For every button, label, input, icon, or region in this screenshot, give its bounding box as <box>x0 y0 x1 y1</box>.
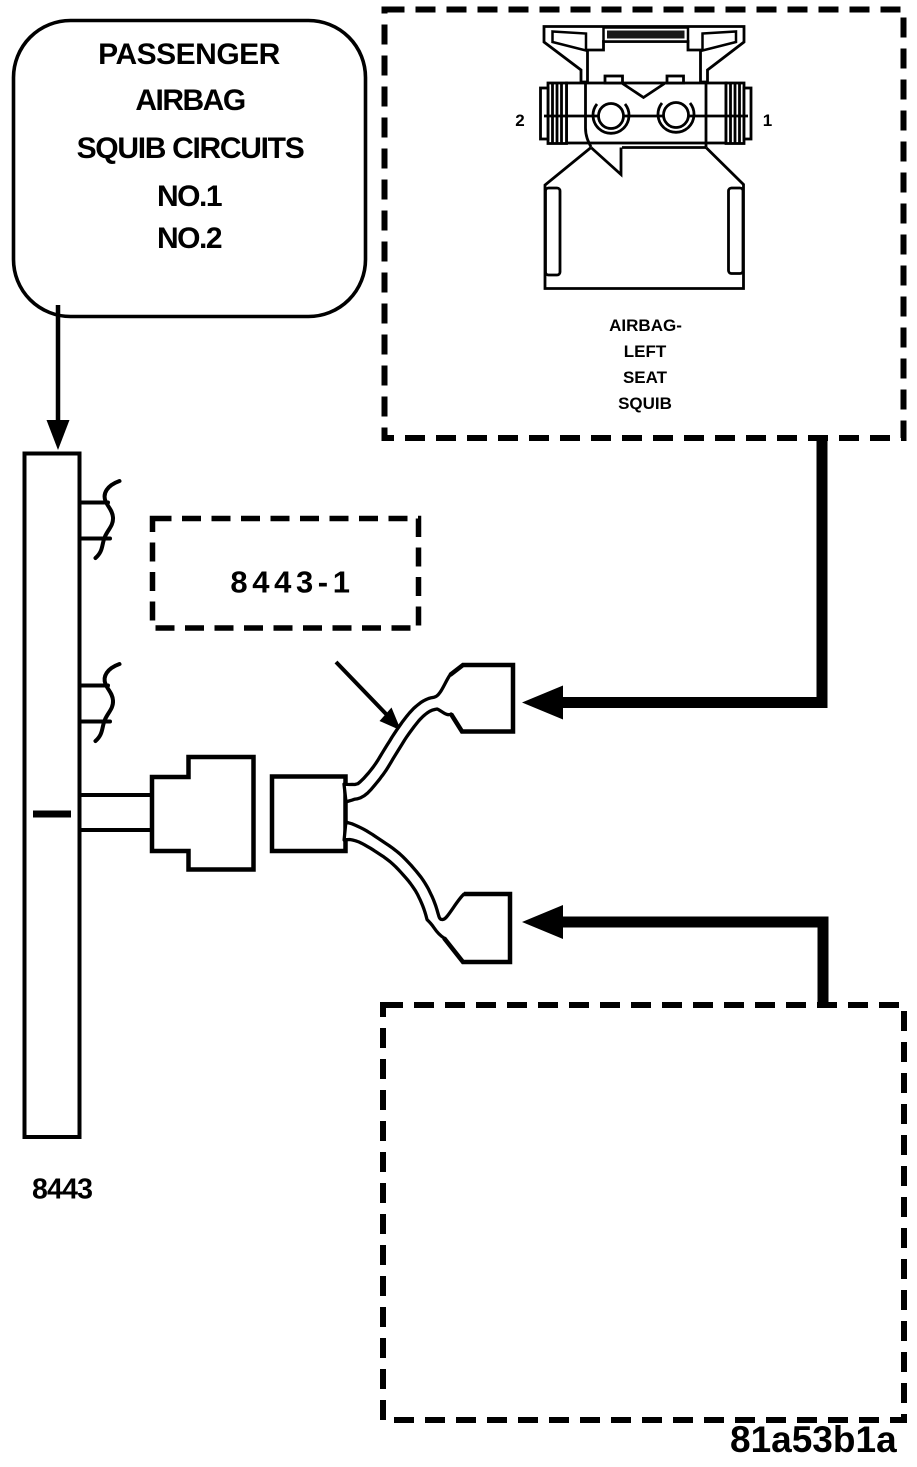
lower housing <box>545 148 744 289</box>
thick arrow upper head <box>522 686 563 720</box>
pointer arrow from 8443-1 <box>336 662 388 716</box>
thick arrow upper wire run from squib <box>563 438 822 703</box>
arrowhead into connector 8443 <box>47 420 70 450</box>
harness junction square <box>272 777 346 852</box>
wire lower squib lead with terminal boot <box>344 822 510 962</box>
clip lock symbol lower on 8443 <box>80 664 120 741</box>
barrel right end <box>744 88 751 139</box>
right slanted slot <box>703 32 737 51</box>
center slot bar <box>607 31 685 39</box>
left slanted slot <box>553 32 587 51</box>
housing beak <box>591 148 621 175</box>
pin tab left <box>605 76 623 83</box>
harness plug stepped body <box>152 757 254 870</box>
svg-text:SEAT: SEAT <box>623 368 668 387</box>
pin 1 cup <box>658 103 694 132</box>
barrel body <box>567 83 727 143</box>
svg-text:SQUIB: SQUIB <box>618 394 672 413</box>
wire from callout to connector 8443 <box>56 305 61 424</box>
svg-text:8443: 8443 <box>32 1174 92 1206</box>
top plate <box>544 27 744 83</box>
center section left wall <box>586 83 592 147</box>
pin 2 circle <box>599 104 624 129</box>
dashed box airbag left seat squib <box>385 10 904 439</box>
V notch <box>623 84 665 98</box>
thick arrow lower wire run from squib <box>563 922 823 1005</box>
pointer arrowhead <box>380 708 402 731</box>
svg-text:LEFT: LEFT <box>624 342 667 361</box>
barrel right cap <box>726 83 744 144</box>
connector stub from 8443 <box>80 795 153 830</box>
barrel left cap <box>548 83 567 144</box>
thick arrow lower head <box>522 905 563 939</box>
squib connector figure <box>541 27 752 289</box>
svg-text:SQUIB CIRCUITS: SQUIB CIRCUITS <box>77 132 304 165</box>
connector 8443 index tick <box>33 811 71 818</box>
center section right wall <box>705 83 708 147</box>
svg-text:81a53b1a: 81a53b1a <box>730 1419 897 1460</box>
squib terminal lower heavy outline <box>444 894 510 962</box>
housing left rail slot <box>546 188 561 275</box>
svg-text:AIRBAG-: AIRBAG- <box>609 316 682 335</box>
squib terminal upper heavy outline <box>450 665 513 732</box>
barrel mid line <box>544 115 748 118</box>
clip lock symbol upper on 8443 <box>80 481 120 558</box>
connector 8443 body <box>25 454 80 1138</box>
center slot <box>604 28 689 42</box>
svg-text:NO.1: NO.1 <box>157 180 222 213</box>
svg-text:NO.2: NO.2 <box>157 222 222 255</box>
svg-text:AIRBAG: AIRBAG <box>135 84 244 117</box>
dashed box lower squib <box>383 1005 904 1420</box>
housing right rail slot <box>729 188 744 274</box>
svg-text:2: 2 <box>515 111 524 130</box>
svg-text:PASSENGER: PASSENGER <box>98 38 280 71</box>
callout box PASSENGER AIRBAG SQUIB CIRCUITS <box>14 21 366 317</box>
svg-text:8443-1: 8443-1 <box>230 565 354 600</box>
dashed callout box 8443-1 <box>153 519 419 629</box>
wire upper squib lead with terminal boot <box>344 665 513 802</box>
barrel left end <box>541 88 549 139</box>
pin 1 circle <box>664 103 689 128</box>
housing ledge <box>622 146 706 149</box>
pin tab right <box>667 76 684 83</box>
svg-text:1: 1 <box>763 111 772 130</box>
pin 2 cup <box>593 104 629 133</box>
